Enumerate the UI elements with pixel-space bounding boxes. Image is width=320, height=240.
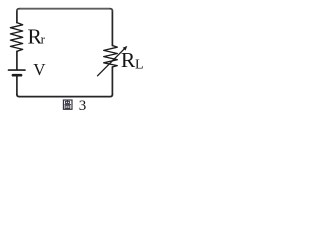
svg-text:r: r — [41, 32, 46, 47]
battery B1 long plate — [9, 69, 26, 71]
resistor R2 zigzag — [104, 46, 118, 68]
wire bottom horizontal with corners — [17, 94, 113, 96]
battery B1 short plate — [13, 74, 21, 77]
wire top horizontal — [19, 8, 110, 10]
svg-text:R: R — [121, 48, 136, 72]
svg-text:L: L — [135, 57, 144, 72]
svg-text:V: V — [33, 60, 46, 79]
variable resistor arrow shaft — [98, 49, 125, 76]
caption glyph 圖 — [63, 100, 72, 109]
resistor R1 zigzag — [10, 23, 22, 52]
svg-text:3: 3 — [79, 98, 87, 113]
wire top-left corner — [17, 9, 19, 11]
wire left vertical segments — [16, 11, 18, 95]
variable resistor arrowhead — [123, 46, 128, 51]
wire right vertical segments — [111, 11, 113, 95]
wire top-right corner — [110, 9, 112, 11]
